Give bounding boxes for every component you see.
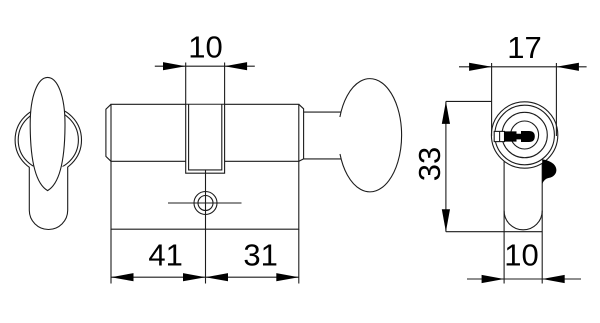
side view: screw hole vertical centerline <box>205 170 207 284</box>
dim 33: top arrow <box>442 101 450 124</box>
side view: cylinder body outline <box>111 104 299 161</box>
side view: fixing screw hole outer circle <box>194 192 217 215</box>
left view: thumbturn rose inner circle <box>18 110 78 170</box>
svg-text:41: 41 <box>148 238 182 273</box>
side view: cam outer outline <box>186 104 225 173</box>
dim 33: bottom arrow <box>442 209 450 232</box>
dim 17: left extension line <box>491 63 493 136</box>
dim 10 top: right extension line <box>224 63 226 105</box>
front view: cam lobe (black) <box>542 159 556 184</box>
side view: cam white mask <box>186 105 225 173</box>
left view: lower housing U profile <box>29 167 67 230</box>
front view: plug surround circle <box>502 112 547 157</box>
front view: body second circle <box>495 105 555 165</box>
dim 10 top: dimension line with tails <box>155 65 255 67</box>
dim 41/31: right extension line <box>298 229 300 283</box>
dim 10 top: right arrow <box>225 62 248 70</box>
side view: thumbturn neck top line <box>304 111 342 113</box>
side view: lower spine rectangle <box>111 161 299 229</box>
side view: fixing screw hole inner circle <box>198 196 213 211</box>
svg-text:31: 31 <box>243 238 277 273</box>
dim 10 top: left arrow <box>163 62 186 70</box>
dim 41: right arrow at center <box>183 273 206 281</box>
dim 17: right extension line <box>555 63 557 136</box>
dim 31: right arrow <box>276 273 299 281</box>
side view: cam inner outline <box>189 104 222 170</box>
left view: thumbturn rose outer circle <box>15 107 81 173</box>
front view: lower housing left edge <box>503 161 505 283</box>
front view: body outer circle <box>491 102 557 168</box>
dim 31: left arrow at center <box>206 273 229 281</box>
side view: rear flange collar <box>299 104 304 161</box>
dim 17: right arrow <box>556 63 579 71</box>
dim 10 bottom: dimension line with tails <box>467 278 581 280</box>
front view: lower housing bottom arc <box>504 211 542 230</box>
svg-text:10: 10 <box>188 30 222 65</box>
svg-text:33: 33 <box>412 147 447 181</box>
dim 41: left arrow <box>111 273 134 281</box>
side view: thumbturn knob ellipse arc <box>340 79 402 192</box>
side view: body left end cap chamfer <box>106 104 111 161</box>
dim 41/31: dimension line <box>111 276 299 278</box>
dim 10 top: left extension/cam line above body <box>185 63 187 105</box>
dim 17: dimension line with tails <box>459 66 587 68</box>
front view: keyway slot (black key profile) <box>504 131 535 142</box>
dim 10 bottom: left arrow <box>482 275 505 283</box>
front view: plug core circle <box>511 121 539 149</box>
svg-text:17: 17 <box>507 30 541 65</box>
front view: keyway stop divider <box>499 131 501 141</box>
dim 10 bottom: right arrow <box>542 275 565 283</box>
dim 33: bottom extension line <box>446 231 542 233</box>
side view: screw hole horizontal centerline <box>168 202 242 204</box>
svg-text:10: 10 <box>504 238 538 273</box>
dim 41/31: left extension line <box>110 229 112 283</box>
dim 33: top extension line <box>446 100 492 102</box>
dim 17: left arrow <box>469 63 492 71</box>
side view: thumbturn neck bottom line <box>304 158 343 160</box>
front view: keyway stop rectangle <box>494 131 504 141</box>
left view: lower housing white mask <box>29 167 67 230</box>
left view: thumbturn knob (egg shape) <box>30 77 65 190</box>
front view: lower housing white mask <box>504 170 542 230</box>
front view: lower housing right edge <box>541 163 543 283</box>
dim 33: dimension line <box>445 101 447 231</box>
